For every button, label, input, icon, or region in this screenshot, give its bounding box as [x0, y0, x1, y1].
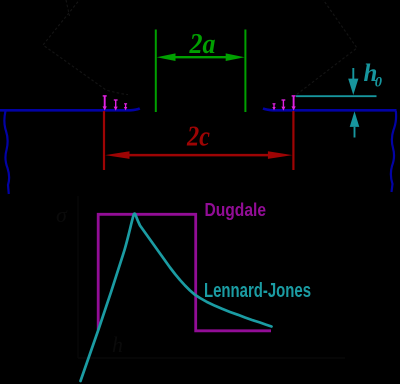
cyan up arrow (h0 gauge, lower) — [354, 127, 356, 138]
red extension line right (x=c+) — [292, 111, 294, 170]
Dugdale model curve (magenta box) — [98, 214, 271, 330]
svg-text:Dugdale: Dugdale — [205, 200, 267, 220]
red arrowhead left — [105, 151, 130, 159]
graph axes, near-invisible dark — [78, 196, 345, 358]
Lennard-Jones curve (teal) — [81, 214, 272, 381]
cyan separation line at h0 level — [296, 95, 377, 97]
red arrowhead right — [268, 151, 293, 159]
cyan down arrow (h0 gauge, upper) — [352, 68, 354, 80]
right edge break (blue wiggle) — [391, 111, 396, 192]
green extension line left (x=a-) — [155, 30, 157, 113]
magenta traction arrow, left small — [124, 104, 127, 111]
svg-text:0: 0 — [375, 75, 382, 91]
substrate surface line (blue), right segment — [263, 108, 397, 110]
magenta traction arrow, right tall — [292, 96, 296, 111]
red arrow shaft — [124, 154, 274, 157]
svg-text:2a: 2a — [189, 29, 216, 60]
svg-text:σ: σ — [56, 202, 68, 227]
left edge break (blue wiggle) — [4, 111, 9, 194]
indenter (punch) outline, near-invisible dark — [43, 0, 357, 97]
magenta traction arrow, left middle — [114, 100, 118, 111]
svg-text:Lennard-Jones: Lennard-Jones — [204, 280, 311, 302]
red extension line left (x=c-) — [103, 111, 105, 170]
magenta traction arrow, right small — [272, 104, 275, 111]
green arrowhead right — [226, 53, 245, 61]
magenta traction arrow, right middle — [281, 100, 285, 111]
magenta traction arrow, left tall — [103, 96, 107, 111]
svg-text:2c: 2c — [186, 121, 210, 152]
green extension line right (x=a+) — [244, 30, 246, 113]
green arrow shaft — [170, 56, 231, 58]
svg-text:h: h — [112, 332, 123, 357]
green arrowhead left — [157, 53, 176, 61]
substrate surface line (blue), left segment — [0, 108, 140, 110]
